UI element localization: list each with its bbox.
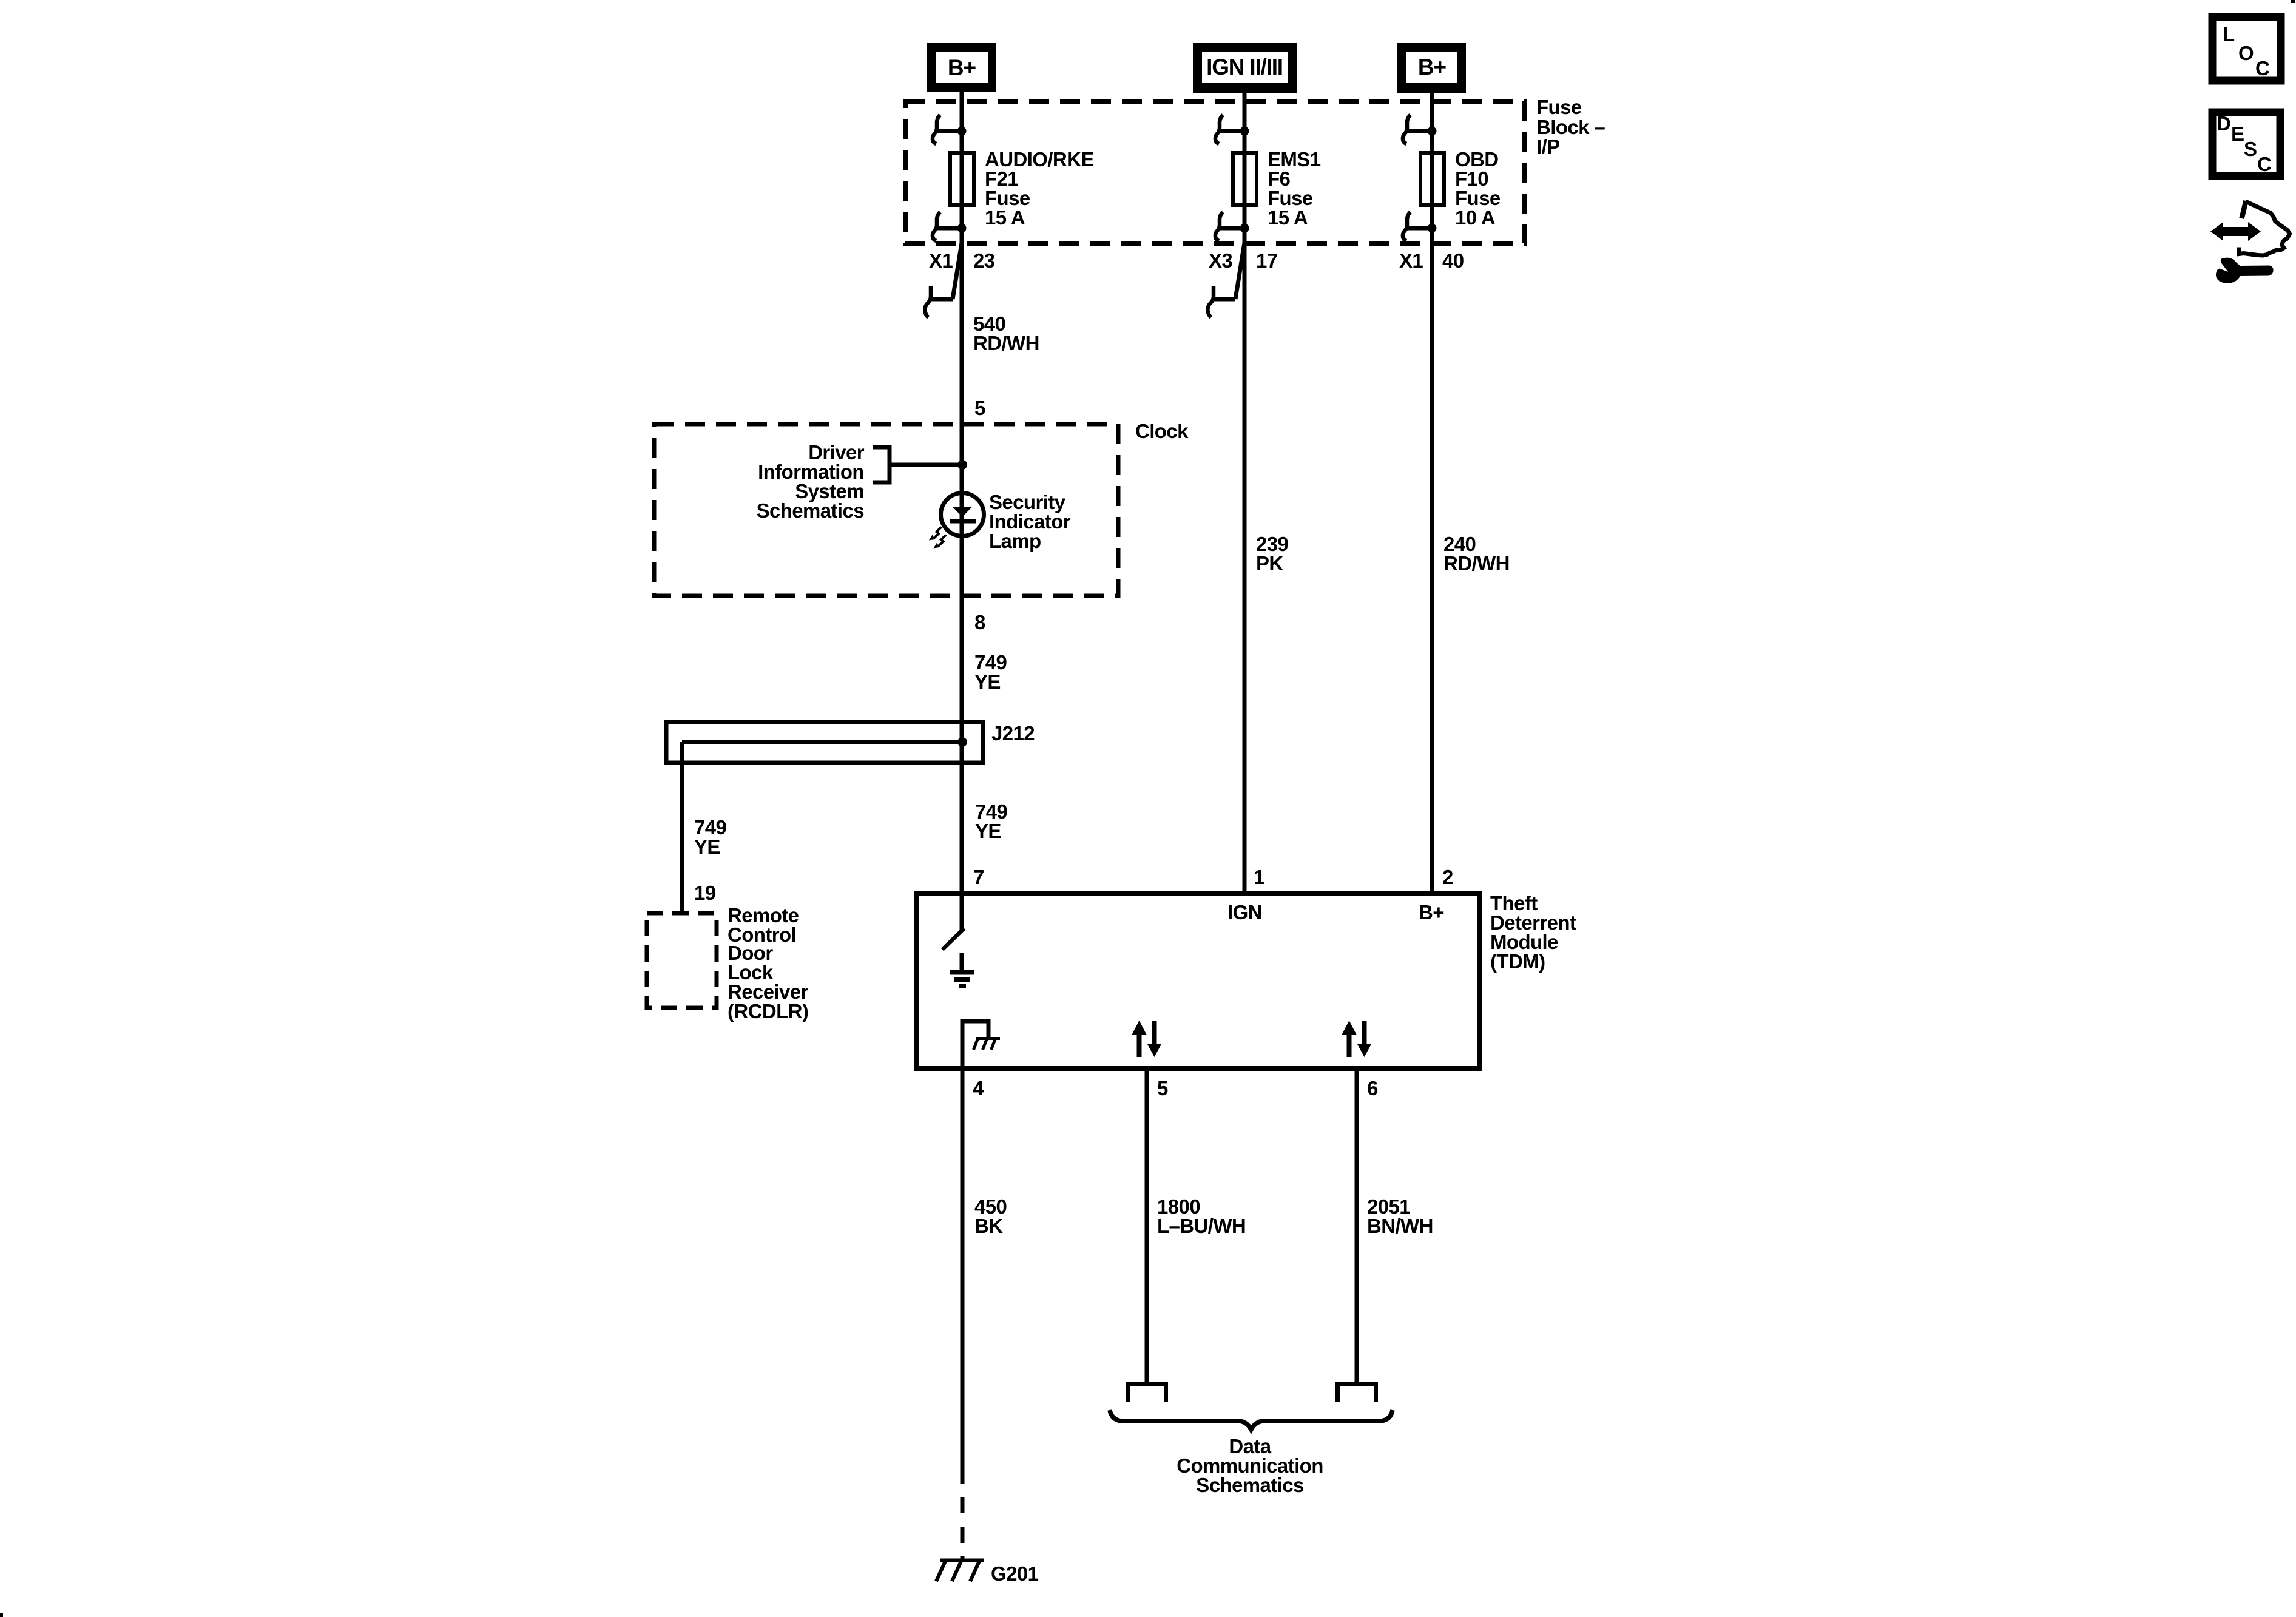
svg-text:AUDIO/RKEF21Fuse15 A: AUDIO/RKEF21Fuse15 A	[985, 148, 1094, 229]
svg-text:DataCommunicationSchematics: DataCommunicationSchematics	[1177, 1435, 1323, 1496]
svg-text:B+: B+	[1419, 901, 1444, 923]
fuse F6 clip bottom	[1215, 212, 1249, 241]
svg-text:G201: G201	[991, 1562, 1039, 1585]
wire from TDM pin 4 (ckt 450)	[961, 1068, 965, 1484]
svg-text:6: 6	[1367, 1077, 1378, 1099]
fuse F10 clip bottom	[1403, 212, 1437, 241]
svg-text:5: 5	[974, 397, 985, 419]
wire from TDM pin 5 (ckt 1800)	[1145, 1068, 1149, 1382]
earth ground symbol inside TDM	[950, 953, 974, 988]
svg-text:DriverInformationSystemSchemat: DriverInformationSystemSchematics	[757, 441, 865, 522]
power feed box IGN II/III	[1193, 43, 1297, 93]
svg-text:TheftDeterrentModule(TDM): TheftDeterrentModule(TDM)	[1490, 892, 1576, 973]
wire branch to driver information system	[890, 463, 962, 467]
wire: B+ feed through fuse F21 down into TDM pin 7 (ckt 540 / 749)	[960, 90, 964, 930]
fuse F21 clip bottom	[933, 212, 967, 241]
LOC reference box	[2212, 17, 2281, 81]
switch arm inside TDM	[942, 928, 964, 950]
svg-text:C: C	[2255, 57, 2269, 79]
svg-text:2: 2	[1442, 866, 1453, 888]
fuse F21 clip top	[933, 115, 967, 144]
svg-text:OBDF10Fuse10 A: OBDF10Fuse10 A	[1455, 148, 1501, 229]
svg-text:SecurityIndicatorLamp: SecurityIndicatorLamp	[989, 491, 1071, 552]
chassis ground symbol inside TDM (pin 4)	[961, 1019, 1001, 1068]
DESC reference box	[2212, 112, 2280, 176]
RCDLR dashed outline	[647, 913, 717, 1008]
splice J212	[666, 722, 983, 763]
dashed continuation of ckt 450 to G201	[961, 1484, 965, 1561]
junction node on ckt 540 at clock	[957, 460, 967, 470]
LED emission arrow 2	[934, 535, 947, 549]
svg-text:X1: X1	[1399, 249, 1423, 272]
svg-text:L: L	[2223, 23, 2235, 46]
svg-text:B+: B+	[948, 55, 976, 80]
wire from TDM pin 6 (ckt 2051)	[1355, 1068, 1359, 1382]
svg-text:749YE: 749YE	[694, 816, 727, 858]
wire: B+ feed through fuse F10 down to TDM pin 2 (ckt 240)	[1430, 90, 1434, 896]
svg-text:2051BN/WH: 2051BN/WH	[1367, 1195, 1433, 1237]
fuse F6 element	[1233, 153, 1257, 205]
page corner speck bottom left	[0, 1613, 3, 1617]
page corner speck top right	[2291, 0, 2295, 3]
fuse F6 clip top	[1215, 115, 1249, 144]
power feed box B+ (left)	[927, 43, 996, 92]
svg-text:17: 17	[1256, 249, 1278, 272]
svg-text:1800L–BU/WH: 1800L–BU/WH	[1157, 1195, 1246, 1237]
svg-text:Clock: Clock	[1135, 420, 1189, 442]
svg-text:C: C	[2257, 153, 2271, 175]
service icon: double arrow with hand and wrench	[2210, 201, 2290, 283]
svg-text:5: 5	[1157, 1077, 1168, 1099]
svg-text:S: S	[2244, 138, 2257, 160]
serial data arrows at TDM pin 6	[1342, 1021, 1372, 1057]
svg-text:8: 8	[974, 611, 985, 633]
fuse F10 clip top	[1403, 115, 1437, 144]
wire: IGN II/III feed through fuse F6 down to TDM pin 1 (ckt 239)	[1243, 90, 1247, 896]
fuse block I/P dashed outline	[905, 101, 1525, 243]
svg-text:240RD/WH: 240RD/WH	[1443, 533, 1510, 575]
terminal at end of ckt 1800	[1128, 1384, 1166, 1402]
svg-text:19: 19	[694, 882, 716, 904]
svg-text:J212: J212	[991, 722, 1035, 744]
svg-text:EMS1F6Fuse15 A: EMS1F6Fuse15 A	[1268, 148, 1321, 229]
svg-text:23: 23	[973, 249, 995, 272]
in-line connector on ckt 239	[1207, 243, 1244, 317]
svg-text:749YE: 749YE	[975, 800, 1008, 842]
svg-text:40: 40	[1442, 249, 1464, 272]
brace for data communication schematics	[1110, 1410, 1393, 1430]
svg-text:1: 1	[1254, 866, 1264, 888]
theft deterrent module box	[916, 894, 1479, 1068]
svg-text:O: O	[2238, 42, 2254, 64]
svg-text:IGN II/III: IGN II/III	[1206, 55, 1283, 79]
svg-text:B+: B+	[1418, 55, 1447, 79]
svg-text:IGN: IGN	[1227, 901, 1262, 923]
fuse F21 element	[950, 153, 974, 205]
svg-text:450BK: 450BK	[974, 1195, 1007, 1237]
bracket for driver information reference	[873, 447, 890, 482]
svg-text:X1: X1	[929, 249, 953, 272]
wire branch from J212 to RCDLR (ckt 749)	[680, 742, 684, 913]
svg-text:FuseBlock –I/P: FuseBlock –I/P	[1536, 96, 1605, 158]
svg-text:RemoteControlDoorLockReceiver(: RemoteControlDoorLockReceiver(RCDLR)	[728, 904, 809, 1022]
ground G201 symbol	[936, 1561, 984, 1582]
LED emission arrow 1	[929, 527, 942, 541]
svg-text:4: 4	[973, 1077, 984, 1099]
svg-text:749YE: 749YE	[974, 651, 1007, 693]
in-line connector on ckt 540	[925, 243, 962, 317]
svg-text:239PK: 239PK	[1256, 533, 1289, 575]
svg-text:X3: X3	[1209, 249, 1232, 272]
clock dashed outline	[654, 424, 1118, 596]
svg-text:E: E	[2231, 123, 2244, 145]
svg-text:7: 7	[973, 866, 984, 888]
svg-text:D: D	[2217, 112, 2230, 135]
terminal at end of ckt 2051	[1338, 1384, 1376, 1402]
fuse F10 element	[1420, 153, 1444, 205]
svg-text:540RD/WH: 540RD/WH	[973, 312, 1039, 354]
serial data arrows at TDM pin 5	[1132, 1021, 1162, 1057]
power feed box B+ (right)	[1397, 43, 1466, 93]
security indicator lamp (LED)	[941, 493, 984, 536]
